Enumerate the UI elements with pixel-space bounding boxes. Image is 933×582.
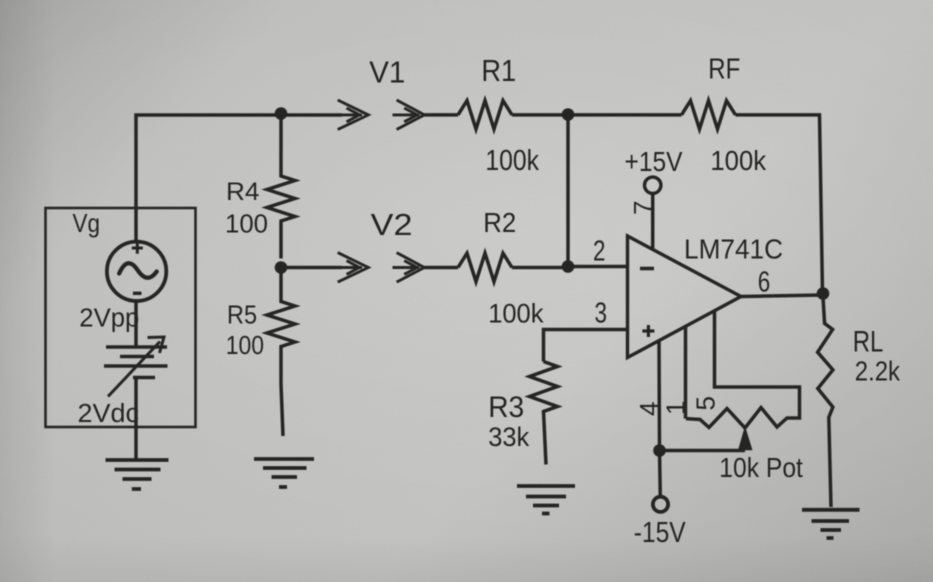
op-amp plus sign xyxy=(642,325,654,337)
AC source plus terminal xyxy=(132,242,143,253)
wire arrow to R1 xyxy=(424,113,458,117)
V1 probe arrow 2 xyxy=(393,100,425,130)
wire top node to V1 arrows xyxy=(281,113,342,117)
resistor R1 xyxy=(458,101,512,130)
wire arrow to R2 xyxy=(424,266,458,270)
wire source internals xyxy=(134,301,138,459)
node inverting input junction xyxy=(562,260,575,273)
wire pin 7 xyxy=(651,193,655,249)
wire R2 to pin 2 xyxy=(512,266,568,270)
resistor R4 xyxy=(267,115,295,259)
resistor R3 xyxy=(530,362,558,465)
wire op-amp output pin 6 xyxy=(741,295,823,297)
+15V supply circle xyxy=(645,177,661,193)
wire R1 to node xyxy=(512,113,568,117)
variable DC source arrow xyxy=(108,342,160,397)
wire wiper to pin-4 node xyxy=(660,449,746,453)
wire pin 4 xyxy=(659,341,660,498)
resistor RL xyxy=(818,294,833,507)
V1 probe arrow 1 xyxy=(329,100,368,130)
wire RF to output node xyxy=(736,115,823,294)
ground R5 xyxy=(254,459,314,487)
node pin4 wiper junction xyxy=(653,444,666,457)
ground Vg xyxy=(106,460,169,489)
resistor R5 xyxy=(267,268,295,437)
potentiometer wiper arrow xyxy=(739,429,752,450)
-15V supply circle xyxy=(653,497,668,512)
potentiometer track xyxy=(686,408,800,429)
node output junction xyxy=(817,287,830,300)
wire Vg to top node xyxy=(136,115,281,241)
node top junction xyxy=(275,107,288,120)
ground RL xyxy=(802,510,860,538)
voltage source Vg box xyxy=(46,208,196,427)
resistor RF xyxy=(682,101,736,130)
wire pin 3 xyxy=(544,330,628,362)
AC source circle xyxy=(107,242,166,301)
AC source sine wave xyxy=(119,263,157,278)
wire pin 1 xyxy=(684,326,688,418)
wire pin 5 xyxy=(715,311,800,413)
V2 probe arrow 2 xyxy=(393,253,425,283)
AC source minus terminal xyxy=(133,292,142,295)
op-amp U1 triangle xyxy=(628,236,742,358)
node R1-RF junction xyxy=(562,108,575,121)
wire inverting input node xyxy=(568,115,628,267)
wire node to V2 arrows xyxy=(281,266,342,270)
ground R3 xyxy=(517,486,575,514)
wire node to RF xyxy=(568,113,682,117)
node V2 junction xyxy=(275,261,288,274)
op-amp minus sign xyxy=(640,267,654,271)
resistor R2 xyxy=(458,253,512,282)
variable DC source battery symbol xyxy=(104,347,168,378)
V2 probe arrow 1 xyxy=(329,253,368,283)
